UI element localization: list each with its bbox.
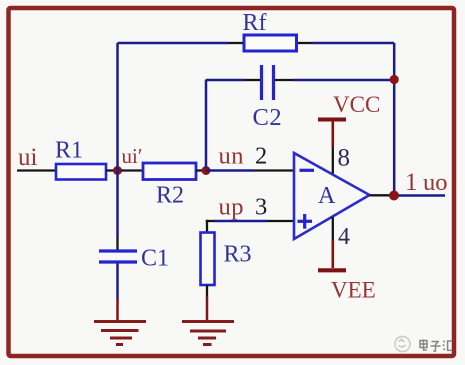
ground under C1 bbox=[94, 322, 146, 345]
wire R2 to node un bbox=[196, 169, 203, 171]
svg-text:C2: C2 bbox=[253, 104, 283, 131]
VCC supply bar bbox=[318, 118, 346, 122]
wire C2 row bbox=[206, 79, 245, 82]
wire ui input lead bbox=[17, 169, 56, 171]
wire VCC to pin 8 bbox=[331, 122, 334, 147]
svg-text:Rf: Rf bbox=[243, 10, 267, 36]
VEE supply bar bbox=[318, 268, 346, 272]
wire C1 to ground bbox=[116, 264, 119, 300]
wire node ui' to R2 bbox=[121, 169, 143, 171]
wire output uo bbox=[399, 194, 446, 197]
junction dot C2/Rf right bbox=[390, 75, 399, 84]
resistor R2 bbox=[143, 163, 196, 180]
svg-text:VCC: VCC bbox=[333, 92, 380, 117]
svg-text:un: un bbox=[219, 143, 245, 170]
capacitor C1 bbox=[99, 249, 137, 252]
op-amp minus input mark bbox=[300, 169, 315, 172]
wire left vertical (feedback branch from node ui' up to Rf and down to C1) bbox=[116, 43, 119, 237]
svg-text:4: 4 bbox=[338, 224, 350, 250]
wire top feedback row bbox=[118, 42, 229, 45]
svg-text:3: 3 bbox=[255, 194, 267, 221]
watermark text hui bbox=[443, 341, 453, 351]
watermark text zi bbox=[431, 342, 441, 352]
resistor R1 bbox=[56, 164, 106, 180]
op-amp A triangle bbox=[294, 153, 370, 239]
svg-text:8: 8 bbox=[338, 145, 351, 172]
wire up corner down to R3 bbox=[206, 220, 208, 233]
svg-text:uo: uo bbox=[423, 169, 448, 196]
wire R3 to ground bbox=[206, 285, 208, 297]
svg-text:C1: C1 bbox=[141, 246, 169, 272]
node output junction dot bbox=[389, 191, 399, 201]
wire node un to op-amp inverting input bbox=[206, 169, 253, 172]
svg-text:1: 1 bbox=[405, 169, 418, 196]
watermark logo bbox=[395, 336, 410, 351]
resistor Rf bbox=[244, 35, 297, 51]
ground under R3 bbox=[182, 322, 234, 345]
svg-text:VEE: VEE bbox=[331, 278, 376, 303]
wire node up row to op-amp non-inverting input bbox=[206, 220, 214, 222]
svg-text:R1: R1 bbox=[55, 138, 83, 164]
svg-text:ui′: ui′ bbox=[122, 144, 143, 168]
svg-text:2: 2 bbox=[255, 143, 267, 170]
resistor R3 bbox=[201, 233, 215, 286]
capacitor C2 bbox=[260, 65, 263, 100]
node un junction dot bbox=[202, 166, 211, 175]
node ui' junction dot bbox=[113, 166, 122, 175]
wire R1 to node ui' bbox=[106, 169, 115, 171]
wire pin 4 to VEE bbox=[332, 217, 334, 240]
wire C2 branch vertical from node un bbox=[205, 80, 208, 169]
svg-text:ui: ui bbox=[18, 144, 38, 171]
svg-text:R2: R2 bbox=[156, 183, 184, 209]
op-amp plus input mark bbox=[298, 220, 313, 223]
watermark text dian bbox=[420, 340, 427, 351]
wire op-amp output bbox=[370, 194, 392, 196]
wire right vertical (feedback to output node) bbox=[393, 43, 396, 193]
svg-text:A: A bbox=[318, 183, 336, 209]
svg-text:R3: R3 bbox=[224, 242, 252, 268]
svg-text:up: up bbox=[219, 194, 245, 221]
